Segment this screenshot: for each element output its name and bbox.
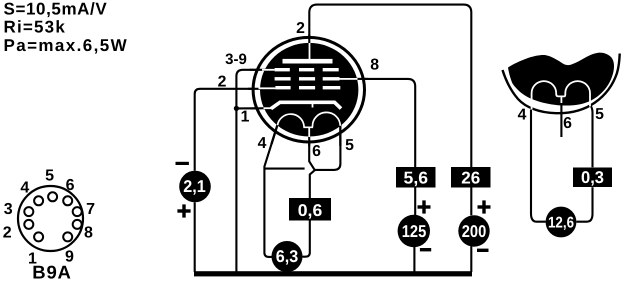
svg-text:5: 5 [595,106,604,123]
svg-text:5: 5 [345,137,354,154]
svg-text:2,1: 2,1 [183,177,206,196]
svg-text:0,3: 0,3 [581,168,604,187]
svg-text:B9A: B9A [32,262,71,281]
svg-text:6: 6 [312,143,321,160]
svg-text:2: 2 [296,20,305,37]
svg-text:3: 3 [4,201,13,218]
svg-text:4: 4 [518,107,527,124]
svg-text:6,3: 6,3 [276,247,299,266]
svg-text:Ri=53k: Ri=53k [4,17,67,36]
svg-text:2: 2 [218,74,227,91]
svg-text:6: 6 [563,115,572,132]
svg-text:5: 5 [45,168,54,185]
svg-text:12,6: 12,6 [548,214,574,231]
svg-text:S=10,5mA/V: S=10,5mA/V [4,0,108,18]
svg-text:6: 6 [66,177,75,194]
svg-text:2: 2 [3,225,12,242]
svg-text:1: 1 [241,108,250,125]
svg-text:8: 8 [370,57,379,74]
svg-text:8: 8 [84,225,93,242]
svg-text:7: 7 [86,201,95,218]
svg-text:3-9: 3-9 [225,51,247,68]
svg-text:5,6: 5,6 [404,169,429,188]
svg-text:4: 4 [20,179,29,196]
svg-text:200: 200 [462,222,487,241]
svg-text:26: 26 [461,169,480,188]
svg-text:0,6: 0,6 [298,201,323,220]
svg-text:4: 4 [258,135,267,152]
svg-text:Pa=max.6,5W: Pa=max.6,5W [4,36,129,55]
svg-text:125: 125 [402,222,427,241]
